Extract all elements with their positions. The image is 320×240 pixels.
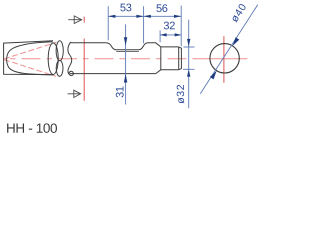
extension line at x=181.2 <box>180 6 182 47</box>
arrowhead 56 right <box>174 15 181 18</box>
ø40 leader line <box>200 5 257 94</box>
hidden wedge edge lower (dashed) <box>4 60 56 77</box>
svg-text:53: 53 <box>120 2 132 14</box>
chisel blade outline <box>4 41 54 75</box>
slot floor second line <box>116 51 139 53</box>
arrowhead ø40 upper <box>233 37 240 46</box>
dimension line 32 <box>160 34 181 36</box>
chamfered end face <box>179 47 182 70</box>
extension line at x=160.1 <box>159 30 161 42</box>
ø32 extension tick top <box>184 46 195 48</box>
svg-text:HH - 100: HH - 100 <box>6 121 57 136</box>
flat-to-round transition curve <box>7 42 53 75</box>
shank broken-end squiggle with loop <box>68 42 73 76</box>
machining symbol top <box>68 16 81 24</box>
svg-text:ø32: ø32 <box>175 84 187 104</box>
ø32 extension tick bottom <box>183 68 195 70</box>
vertical centerline through retainer slot <box>83 17 85 101</box>
arrowhead 53 right <box>136 15 143 18</box>
arrowhead ø32 bottom <box>187 70 190 77</box>
arrowhead 31 bottom <box>124 74 127 83</box>
arrowhead 32 left <box>160 33 167 36</box>
dimension line 31 (vertical) <box>125 24 127 104</box>
arrowhead 56 left <box>144 15 151 18</box>
arrowhead ø32 top <box>187 39 190 47</box>
arrowhead 31 top <box>124 37 127 46</box>
horizontal centerline (dashed) <box>4 58 248 60</box>
arrowhead 32 right <box>175 33 182 36</box>
extension line at x=143.6 <box>143 6 145 43</box>
shank bottom edge with shoulder chamfer <box>70 70 179 74</box>
machining symbol bottom <box>68 90 81 97</box>
vertical centerline of section circle <box>223 36 225 83</box>
svg-text:31: 31 <box>115 86 127 98</box>
svg-text:56: 56 <box>156 3 168 15</box>
hidden wedge edge upper (dashed) <box>4 42 57 59</box>
section circle ø40 <box>210 44 239 73</box>
dimension line ø32 (vertical) <box>188 20 190 109</box>
svg-text:32: 32 <box>163 20 175 32</box>
dimension line 56 <box>144 15 182 17</box>
arrowhead 53 left <box>108 15 115 18</box>
shoulder line <box>160 47 162 70</box>
break squiggle lower loop <box>56 60 63 76</box>
dimension line 53 <box>108 15 143 17</box>
blade end ellipse <box>48 43 58 75</box>
arrowhead ø40 lower <box>210 71 217 80</box>
break squiggle upper loop <box>56 41 63 61</box>
extension line at x=108 <box>107 6 109 40</box>
end chamfer circle line <box>178 47 180 70</box>
svg-text:ø40: ø40 <box>229 1 250 24</box>
shank top edge with retainer slot and shoulder chamfer <box>71 43 179 50</box>
